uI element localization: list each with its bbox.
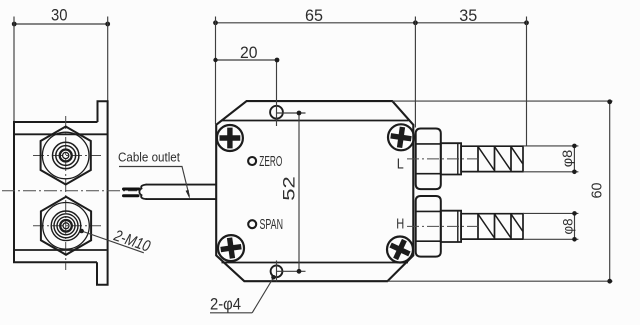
screw TL — [217, 125, 243, 151]
main horizontal centerline — [2, 190, 137, 192]
label 2-phi4 leader dot — [271, 275, 276, 280]
panel bottom seam — [222, 262, 409, 264]
svg-text:φ8: φ8 — [560, 150, 575, 168]
top hole centerline / 20-dim extension — [276, 60, 278, 126]
hex nut H — [416, 196, 441, 257]
svg-text:ZERO: ZERO — [259, 153, 282, 170]
body octagon outline — [216, 101, 413, 281]
dim 20 line — [216, 59, 278, 61]
svg-text:SPAN: SPAN — [260, 216, 284, 233]
extension line left — [13, 17, 15, 123]
phi8 upper extension lines — [523, 146, 578, 172]
svg-text:52: 52 — [280, 176, 299, 201]
dim phi8 lower dots — [572, 211, 577, 216]
label Cable outlet arrowhead — [186, 190, 190, 199]
centerline L — [407, 158, 481, 160]
barbs H — [461, 214, 523, 239]
60 extension top — [392, 100, 612, 102]
dim dot left — [213, 20, 218, 25]
cable sheath cap — [139, 185, 146, 200]
60 extension bottom — [387, 280, 612, 282]
dim dot right — [524, 20, 529, 25]
label 2-M10 leader — [82, 231, 144, 253]
vertical centerline through nuts — [65, 116, 67, 270]
label 2-M10 leader dot — [79, 229, 84, 234]
extension left (body left) — [215, 17, 217, 125]
neck L — [441, 143, 461, 174]
label 2-phi4 underline — [210, 312, 252, 314]
nut1 centerline — [33, 155, 101, 157]
screw BR — [386, 236, 414, 264]
body inner top line — [14, 133, 107, 135]
top mounting hole — [270, 106, 283, 119]
bracket strip — [97, 101, 108, 284]
bottom mounting hole — [271, 265, 283, 277]
dim 20 dot right — [275, 58, 280, 63]
svg-text:L: L — [397, 156, 404, 173]
hex nut L — [416, 129, 441, 190]
SPAN indicator circle — [248, 220, 256, 228]
svg-text:20: 20 — [240, 43, 258, 62]
dim 60 dot bottom — [607, 279, 612, 284]
wire 1 — [124, 188, 140, 191]
cable body bottom line — [146, 198, 217, 200]
fitting H (lower) — [407, 196, 523, 257]
body inner bottom line — [14, 249, 107, 251]
centerline H — [407, 225, 481, 227]
dim 60 dot top — [607, 99, 612, 104]
svg-text:φ8: φ8 — [560, 219, 575, 235]
dim 30 dot left — [12, 22, 17, 27]
ZERO indicator circle — [248, 157, 256, 165]
phi8 lower extension lines — [523, 213, 578, 239]
fitting L (upper) — [407, 129, 523, 190]
dim phi8 upper line — [573, 146, 575, 172]
dim 65-35 line — [216, 22, 527, 24]
barbs L — [461, 146, 523, 171]
extension middle (body right) — [414, 17, 416, 128]
dim 52 line — [298, 113, 300, 271]
bottom hole centerline — [276, 261, 278, 282]
svg-text:2-φ4: 2-φ4 — [210, 294, 241, 313]
neck H — [441, 211, 461, 242]
dim 20 dot left — [213, 58, 217, 62]
hex nut 1 (top M10) — [41, 127, 91, 185]
dim 52 dot bottom — [297, 269, 302, 274]
panel top seam — [221, 120, 409, 122]
bottom hole stub to 52 dim — [277, 270, 306, 272]
svg-text:60: 60 — [589, 183, 605, 199]
svg-text:2-M10: 2-M10 — [111, 227, 152, 255]
svg-text:35: 35 — [459, 6, 477, 25]
svg-text:H: H — [396, 216, 404, 233]
hex nut 2 (bottom M10) — [41, 197, 91, 255]
top hole stub to 52 dim — [277, 112, 306, 114]
svg-text:65: 65 — [305, 6, 323, 25]
dim dot middle — [413, 20, 418, 25]
body side plate outline — [14, 122, 98, 262]
wire 2 — [124, 194, 139, 197]
nut2 centerline — [33, 225, 101, 227]
screw TR — [388, 124, 414, 150]
extension right (barb tip) — [526, 17, 528, 147]
dim 30 dot right — [105, 22, 110, 27]
svg-text:Cable outlet: Cable outlet — [118, 150, 180, 165]
svg-text:30: 30 — [51, 6, 68, 25]
dim 30 line — [14, 23, 108, 25]
cable body top line — [146, 184, 217, 186]
dim 52 dot top — [297, 111, 302, 116]
dim phi8 lower line — [574, 213, 576, 239]
extension line right — [107, 17, 109, 102]
label 2-phi4 leader — [252, 278, 273, 313]
dim 60 line — [609, 102, 611, 281]
screw BL — [218, 235, 244, 261]
dim phi8 upper dots — [572, 144, 577, 149]
label Cable outlet leader — [119, 167, 189, 197]
